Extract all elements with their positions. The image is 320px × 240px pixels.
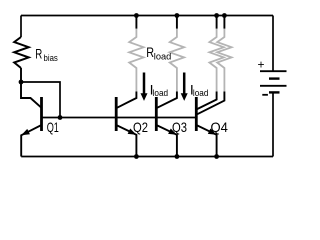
svg-text:bias: bias xyxy=(44,53,59,63)
svg-text:load: load xyxy=(193,88,209,98)
svg-text:load: load xyxy=(154,52,172,62)
svg-text:Q1: Q1 xyxy=(47,119,59,135)
svg-text:load: load xyxy=(153,88,169,98)
svg-text:Q4: Q4 xyxy=(211,119,229,135)
svg-text:Q2: Q2 xyxy=(133,119,148,135)
svg-text:+: + xyxy=(258,58,265,72)
svg-text:R: R xyxy=(35,45,42,61)
svg-text:Q3: Q3 xyxy=(172,119,187,135)
